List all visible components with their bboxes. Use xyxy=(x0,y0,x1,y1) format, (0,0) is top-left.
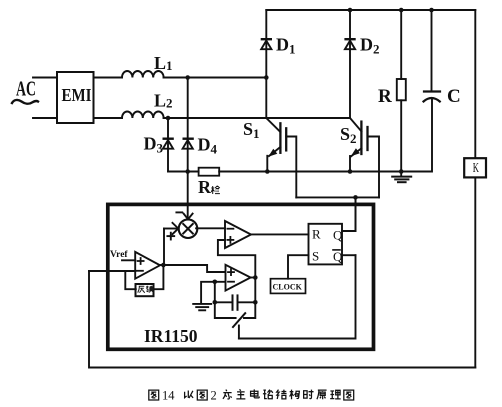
svg-text:IR1150: IR1150 xyxy=(144,326,198,346)
svg-text:S1: S1 xyxy=(243,119,260,141)
svg-text:C: C xyxy=(447,86,461,107)
svg-text:K: K xyxy=(473,161,479,176)
svg-text:R: R xyxy=(198,177,212,197)
svg-text:Q: Q xyxy=(333,249,343,264)
svg-text:EMI: EMI xyxy=(62,85,92,105)
svg-text:2: 2 xyxy=(211,389,217,403)
svg-text:D3: D3 xyxy=(144,134,164,156)
svg-text:S: S xyxy=(312,248,319,263)
svg-text:D1: D1 xyxy=(276,35,296,57)
svg-text:Vref: Vref xyxy=(110,250,128,260)
svg-text:Q: Q xyxy=(333,228,343,243)
svg-text:L2: L2 xyxy=(154,91,173,111)
svg-text:D4: D4 xyxy=(198,135,218,157)
svg-text:CLOCK: CLOCK xyxy=(273,283,303,292)
svg-text:D2: D2 xyxy=(360,35,380,57)
svg-text:S2: S2 xyxy=(340,124,357,146)
svg-text:AC: AC xyxy=(16,77,36,101)
svg-text:R: R xyxy=(312,227,321,242)
svg-text:R: R xyxy=(378,86,392,107)
svg-text:14: 14 xyxy=(162,389,175,403)
svg-text:L1: L1 xyxy=(154,53,173,73)
